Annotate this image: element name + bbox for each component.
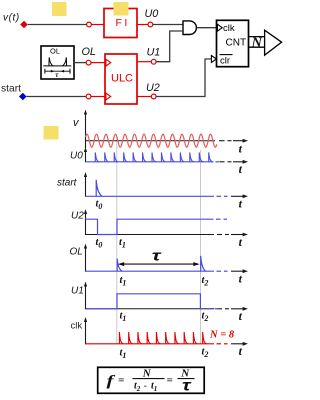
svg-text:clk: clk: [71, 321, 83, 332]
signal U2: [86, 219, 214, 234]
axis start dashes/arrow: [217, 195, 222, 197]
wire U2 to clr: [156, 59, 211, 97]
node v(t) red diamond terminal: [20, 21, 28, 29]
svg-text:U2: U2: [146, 82, 160, 94]
tau measure arrow: [120, 263, 199, 265]
svg-text:U1: U1: [71, 286, 84, 297]
svg-text:FI: FI: [116, 17, 130, 29]
svg-text:U1: U1: [147, 47, 161, 59]
wire (red) start into ULC: [91, 96, 105, 98]
wire (red) into F1: [91, 24, 104, 26]
svg-text:ULC: ULC: [111, 73, 133, 85]
node start blue diamond terminal: [19, 93, 27, 101]
axis U1 horizontal: [86, 308, 215, 310]
signal start pulse at t0: [96, 180, 102, 197]
guide line t2: [200, 150, 202, 344]
svg-text:U2: U2: [71, 211, 84, 222]
wire AND to CNT clk: [197, 27, 217, 29]
clr edge triangle: [211, 56, 216, 63]
axis U2 horizontal: [86, 234, 215, 236]
svg-text:clr: clr: [220, 56, 230, 67]
pin circle start: [86, 94, 91, 99]
pin circle U2: [151, 94, 156, 99]
signal start baseline: [86, 195, 215, 197]
wire U2 output: [137, 96, 151, 98]
wire OL output: [74, 62, 86, 64]
wire start to ULC: [27, 96, 87, 98]
signal U0 pulses: [95, 152, 212, 161]
svg-text:U0: U0: [70, 151, 83, 162]
svg-text:CNT: CNT: [226, 38, 247, 49]
axis v horizontal: [86, 140, 216, 142]
svg-text:N: N: [251, 35, 263, 51]
svg-text:N: N: [142, 368, 152, 380]
OL icon waveform: [43, 65, 71, 67]
block CNT: [217, 20, 249, 66]
ULC input triangle bottom: [106, 93, 111, 100]
block ULC: [105, 54, 137, 104]
signal v sine: [86, 134, 217, 147]
pin circle F1 input: [87, 22, 92, 27]
svg-text:v(t): v(t): [3, 13, 20, 24]
svg-text:clk: clk: [223, 23, 235, 34]
svg-text:τ: τ: [182, 378, 191, 395]
svg-text:OL: OL: [70, 247, 83, 258]
svg-text:start: start: [57, 178, 78, 189]
signal OL pulse at t2: [201, 256, 206, 271]
wire U0 to AND: [153, 24, 183, 26]
OL icon tau measure: [44, 69, 46, 74]
yellow marker square 3 (timing diagram): [44, 126, 59, 140]
wire v(t) to F1: [28, 24, 87, 26]
signal clk baseline: [86, 343, 215, 345]
axis U1 vertical: [85, 284, 87, 309]
yellow marker square 1: [52, 2, 67, 16]
svg-text:OL: OL: [50, 47, 60, 56]
wire F1 output: [137, 24, 148, 26]
svg-text:=: =: [167, 375, 173, 387]
signal U1: [86, 294, 205, 309]
axis U0 dashes/arrow: [220, 161, 225, 163]
axis start vertical: [85, 175, 87, 197]
axis v vertical: [85, 113, 87, 149]
block OL generator: [41, 46, 74, 79]
guide line t1: [116, 136, 118, 344]
axis clk dashes/arrow: [217, 343, 222, 345]
svg-text:U0: U0: [145, 8, 159, 20]
pin circle OL: [86, 60, 91, 65]
axis OL vertical: [85, 246, 87, 272]
pin circle U1: [151, 59, 156, 64]
signal U0 baseline: [86, 161, 214, 163]
wire U1 to AND: [156, 31, 183, 62]
AND gate: [183, 21, 196, 35]
signal clk pulses: [119, 332, 206, 344]
clk edge triangle: [217, 24, 222, 31]
axis clk vertical: [85, 320, 87, 345]
svg-text:=: =: [118, 375, 124, 387]
N output bus arrow: [249, 36, 266, 38]
wire (red) OL to ULC: [91, 62, 105, 64]
svg-text:start: start: [1, 84, 21, 95]
yellow marker square 2 (on F1): [114, 2, 129, 16]
axis U0 vertical: [85, 149, 87, 162]
axis OL dashes/arrow: [217, 270, 222, 272]
pin circle U0: [148, 22, 153, 27]
formula box: [98, 367, 205, 393]
block F1: [104, 9, 137, 38]
signal OL baseline: [86, 270, 215, 272]
svg-text:N = 8: N = 8: [209, 330, 235, 341]
wire U1 output: [137, 61, 151, 63]
signal OL pulse at t1: [117, 259, 122, 272]
svg-text:τ: τ: [152, 247, 162, 264]
ULC input triangle top: [106, 59, 111, 66]
svg-text:OL: OL: [82, 46, 96, 58]
axis U2 vertical: [85, 212, 87, 236]
